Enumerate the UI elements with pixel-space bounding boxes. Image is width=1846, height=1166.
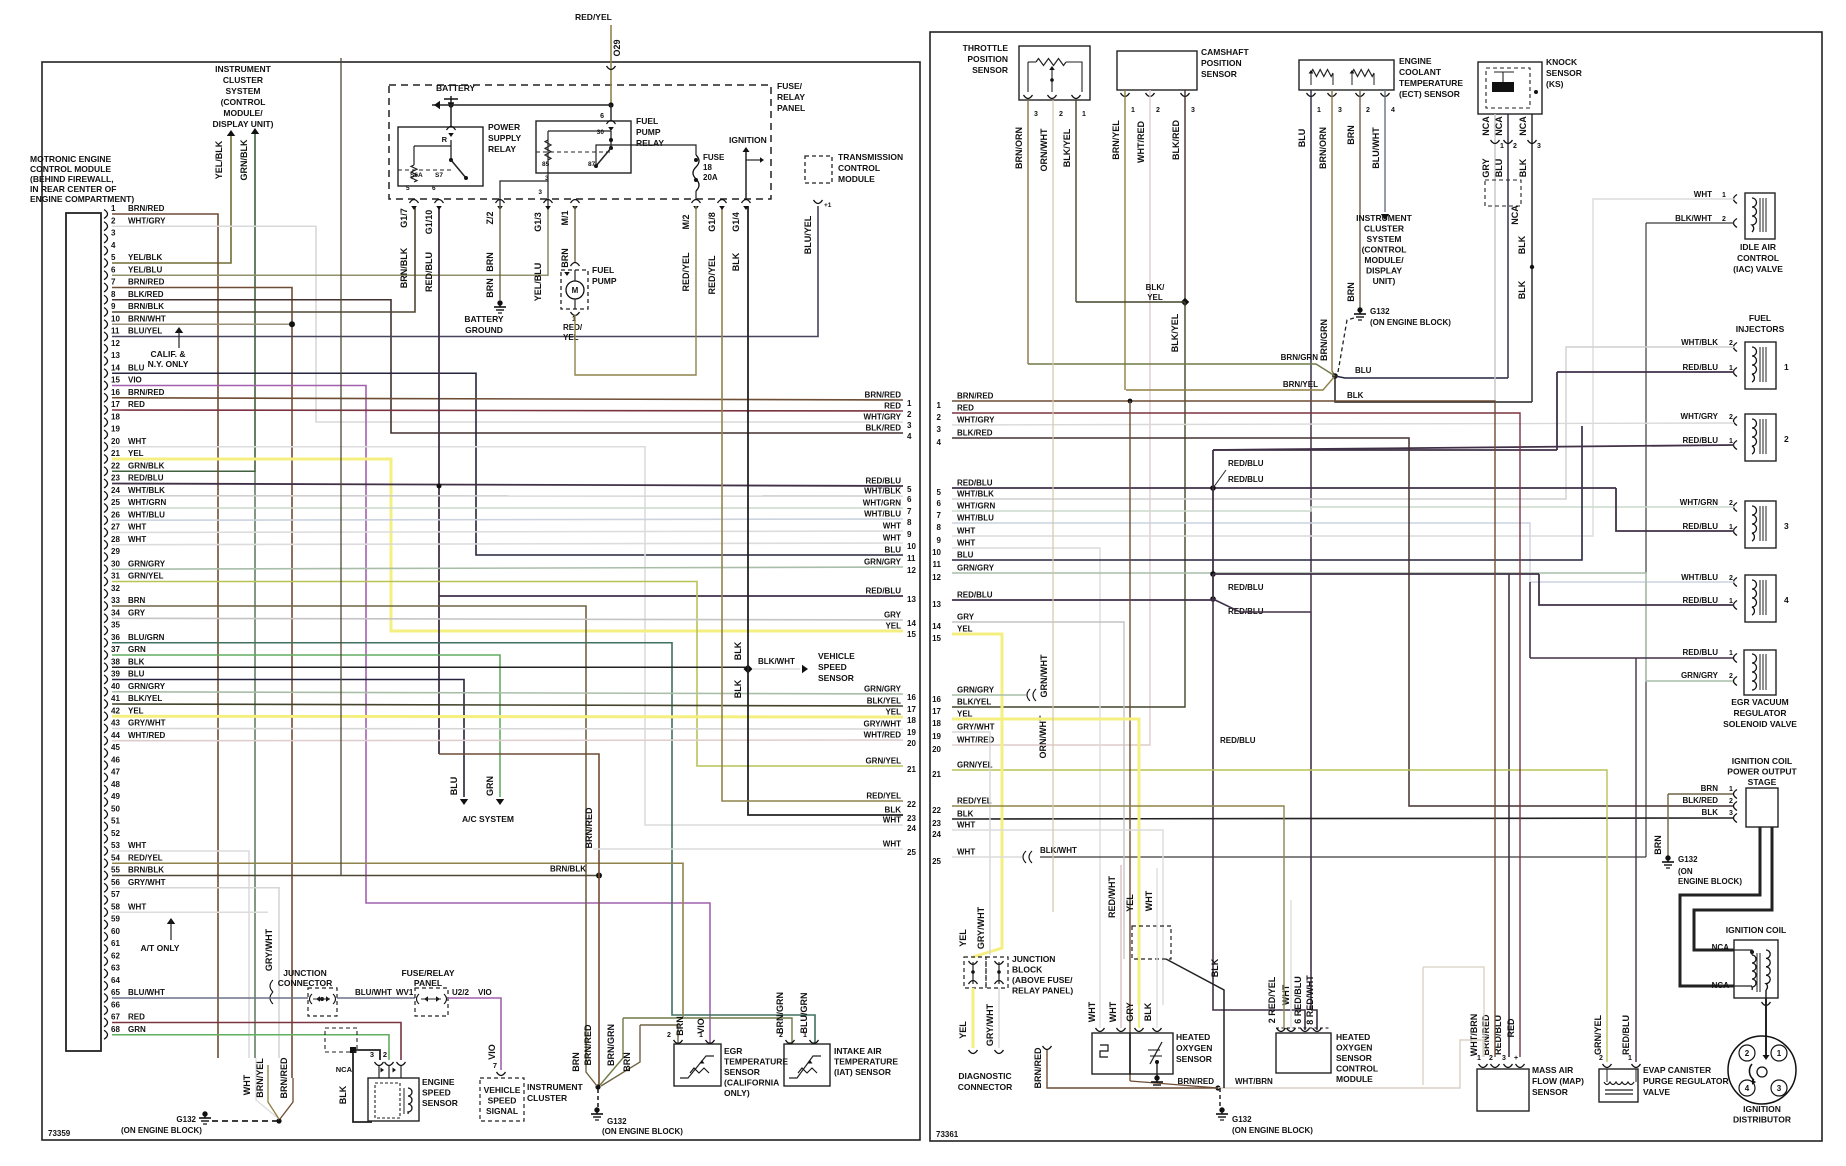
svg-text:WHT/GRY: WHT/GRY [864,413,902,422]
wire BRN to power stage and G132 [1668,793,1734,795]
svg-text:TEMPERATURE: TEMPERATURE [1399,78,1463,88]
ECM pin 54 [104,859,108,868]
svg-text:13: 13 [111,351,120,360]
svg-text:WHT: WHT [128,841,146,850]
svg-text:8: 8 [111,290,116,299]
svg-text:6: 6 [907,495,912,504]
svg-text:VIO: VIO [128,376,142,385]
svg-text:7: 7 [111,278,116,287]
svg-text:BLK/RED: BLK/RED [865,424,901,433]
svg-text:RED/BLU: RED/BLU [424,252,434,292]
wire pin40 GRN/GRY to edge 16 [112,692,903,694]
wire GRN/YEL to EVAP valve [952,770,1607,1062]
ECM pin 31 [104,577,108,586]
svg-text:66: 66 [111,1000,120,1009]
ECM pin 18 [104,418,108,427]
svg-text:RED/WHT: RED/WHT [1107,876,1117,918]
svg-text:BLK: BLK [1517,235,1527,254]
svg-text:RED: RED [128,1013,145,1022]
svg-text:WHT: WHT [883,534,901,543]
svg-text:15: 15 [907,630,916,639]
ECM pin 57 [104,896,108,905]
wire trunk olive x343 [340,58,342,876]
svg-text:JUNCTION: JUNCTION [1012,954,1055,964]
vehicle speed sensor node [743,664,752,673]
wire pin54 RED/YEL [112,863,683,1017]
svg-text:(ON ENGINE BLOCK): (ON ENGINE BLOCK) [1370,318,1451,327]
svg-text:18: 18 [111,412,120,421]
svg-text:BLK: BLK [1518,158,1528,177]
wire YEL edge 18 to HO2S [952,719,1139,1005]
svg-text:3: 3 [370,1050,374,1059]
ECM pin 2 [104,222,108,231]
svg-text:1: 1 [1784,362,1789,372]
svg-text:PANEL: PANEL [777,103,805,113]
svg-text:3: 3 [937,425,942,434]
svg-text:7: 7 [493,1061,497,1070]
svg-text:2: 2 [937,413,942,422]
svg-text:WHT: WHT [883,522,901,531]
svg-text:4: 4 [111,241,116,250]
svg-text:65: 65 [111,988,120,997]
ECM pin 60 [104,932,108,941]
wire pin34 GRY to edge 14 [112,618,903,620]
knock sensor dashed connector [1485,180,1521,206]
wire WHT edge 10 to heated oxygen sensor [952,548,1100,1028]
svg-text:3: 3 [1777,1084,1782,1093]
svg-text:WHT/GRY: WHT/GRY [957,416,995,425]
svg-text:IGNITION COIL: IGNITION COIL [1732,756,1792,766]
ECM pin 64 [104,981,108,990]
svg-text:(ON ENGINE BLOCK): (ON ENGINE BLOCK) [1232,1126,1313,1135]
svg-text:BRN: BRN [1346,125,1356,145]
ECM pin 24 [104,491,108,500]
svg-text:8 RED/WHT: 8 RED/WHT [1305,975,1315,1025]
svg-text:BLK: BLK [128,657,145,666]
svg-text:MODULE/: MODULE/ [223,108,263,118]
svg-text:RED/BLU: RED/BLU [1682,363,1718,372]
wire CMP BRN/YEL [1124,90,1126,390]
wire RED to MAF [952,413,1520,1057]
svg-text:52: 52 [111,829,120,838]
ECM pin 65 [104,994,108,1003]
svg-text:BATTERY: BATTERY [464,314,504,324]
heated oxygen sensor [1092,1033,1130,1074]
svg-text:SUPPLY: SUPPLY [488,133,522,143]
svg-text:23: 23 [111,474,120,483]
ECM pin 30 [104,565,108,574]
svg-text:CLUSTER: CLUSTER [1364,224,1404,234]
svg-text:SPEED: SPEED [818,662,847,672]
svg-text:YEL: YEL [563,333,579,342]
svg-text:GRN/YEL: GRN/YEL [1593,1015,1603,1056]
svg-text:55: 55 [111,866,120,875]
svg-text:YEL: YEL [128,449,144,458]
svg-text:GRN/BLK: GRN/BLK [128,461,165,470]
svg-text:G132: G132 [1678,855,1698,864]
svg-text:37: 37 [111,645,120,654]
svg-text:22: 22 [932,806,941,815]
svg-text:2: 2 [1729,575,1733,582]
svg-text:7: 7 [937,511,942,520]
svg-text:16: 16 [932,695,941,704]
heated oxygen sensor control module [1276,1033,1331,1073]
svg-text:SYSTEM: SYSTEM [226,86,261,96]
svg-text:BRN/BLK: BRN/BLK [550,865,586,874]
relay output to battery ground wire BRN Z/2 [500,160,548,206]
svg-text:GROUND: GROUND [465,325,503,335]
ECM pin 20 [104,442,108,451]
svg-text:RED/BLU: RED/BLU [957,479,993,488]
svg-text:18: 18 [907,716,916,725]
svg-text:M/1: M/1 [560,210,570,225]
ECM pin 16 [104,393,108,402]
svg-text:RED/YEL: RED/YEL [866,792,901,801]
svg-text:YEL/BLK: YEL/BLK [128,253,162,262]
ECM pin 1 [104,210,108,219]
svg-text:R: R [442,135,448,144]
wire ORN/WHT end [1052,100,1054,912]
svg-text:(CONTROL: (CONTROL [1362,245,1407,255]
svg-text:22: 22 [907,800,916,809]
svg-text:1: 1 [1729,365,1733,372]
svg-text:SENSOR: SENSOR [1176,1054,1212,1064]
svg-text:YEL/BLK: YEL/BLK [214,140,224,179]
svg-text:VEHICLE: VEHICLE [484,1085,521,1095]
svg-text:G132: G132 [607,1117,627,1126]
wire BRN from EGR pin 2 [640,1025,678,1044]
svg-text:2: 2 [383,1050,387,1059]
svg-text:3: 3 [1784,521,1789,531]
G132 right page bottom [1219,1088,1221,1108]
svg-text:24: 24 [932,830,941,839]
svg-text:YEL/BLU: YEL/BLU [128,265,162,274]
svg-text:25: 25 [111,498,120,507]
junction pin10 BRN/WHT [112,323,292,325]
svg-text:30: 30 [597,129,605,136]
mass air flow sensor [1477,1069,1529,1111]
svg-text:44: 44 [111,731,120,740]
wire pin5 YEL/BLK to instrument cluster [112,133,231,263]
wire pin25 WHT/GRN to edge 7 [112,507,903,509]
svg-text:STAGE: STAGE [1748,777,1777,787]
svg-text:IGNITION: IGNITION [1743,1104,1781,1114]
svg-text:56: 56 [111,878,120,887]
svg-text:11: 11 [933,560,942,569]
svg-text:POSITION: POSITION [1201,58,1242,68]
svg-text:OXYGEN: OXYGEN [1176,1043,1212,1053]
svg-text:CONTROL: CONTROL [1336,1064,1378,1074]
svg-text:+1: +1 [824,202,832,209]
svg-text:9: 9 [111,302,116,311]
svg-text:10: 10 [111,314,120,323]
wire WHT/BRN from G132 junction to MAF [1130,1081,1218,1088]
wire BLK/RED to ignition power stage [952,438,1734,806]
svg-text:WV1: WV1 [396,988,414,997]
svg-text:GRN/GRY: GRN/GRY [957,686,995,695]
svg-text:BLK: BLK [338,1085,348,1104]
svg-text:23: 23 [932,819,941,828]
svg-text:27: 27 [111,523,120,532]
svg-text:BLK: BLK [1143,1002,1153,1021]
wire WHT/BLU to injector 4 [952,523,1734,582]
wire ECT BRN to G132 [1359,90,1361,308]
ECM pin 36 [104,638,108,647]
svg-text:24: 24 [111,486,120,495]
wire GRN/GRY to EGR solenoid [952,573,1734,681]
wire pin27 WHT to edge 9 [112,531,903,533]
ECM pin 21 [104,455,108,464]
svg-text:GRY/WHT: GRY/WHT [128,878,166,887]
ECM pin 59 [104,920,108,929]
svg-text:WHT: WHT [957,527,975,536]
svg-text:G1/7: G1/7 [399,208,409,228]
svg-text:35: 35 [111,621,120,630]
svg-text:DISPLAY: DISPLAY [1366,266,1402,276]
wire BLK/WHT edge 25 to IAC valve [1040,856,1646,858]
svg-text:BLK: BLK [1210,958,1220,977]
svg-text:YEL: YEL [885,622,901,631]
svg-text:EVAP CANISTER: EVAP CANISTER [1643,1065,1711,1075]
ECM pin 19 [104,430,108,439]
svg-text:2: 2 [1722,216,1726,223]
svg-text:BLK/WHT: BLK/WHT [1675,214,1712,223]
svg-text:CALIF. &: CALIF. & [151,349,186,359]
svg-text:RED/YEL: RED/YEL [707,255,717,295]
wire pin14 BLU [112,373,903,555]
svg-text:BLU/YEL: BLU/YEL [128,327,162,336]
svg-text:12: 12 [907,566,916,575]
svg-text:61: 61 [111,939,120,948]
svg-text:SENSOR: SENSOR [972,65,1008,75]
svg-text:BLK/RED: BLK/RED [128,290,164,299]
svg-text:SENSOR: SENSOR [1336,1053,1372,1063]
ECM pin 42 [104,712,108,721]
svg-text:WHT/BLU: WHT/BLU [864,510,901,519]
svg-text:RED: RED [128,400,145,409]
svg-text:IDLE AIR: IDLE AIR [1740,242,1776,252]
RED/WHT dashed connector [1132,926,1171,959]
svg-text:YEL: YEL [958,929,968,947]
svg-text:8: 8 [907,518,912,527]
wire GRY edge 14 [952,622,1124,926]
svg-text:5: 5 [406,185,410,192]
calif ny only note [175,327,183,333]
svg-text:ENGINE BLOCK): ENGINE BLOCK) [1678,877,1742,886]
svg-text:RELAY: RELAY [777,92,805,102]
ECM pin 3 [104,234,108,243]
ECM pin 49 [104,798,108,807]
svg-text:GRN/GRY: GRN/GRY [128,682,166,691]
svg-text:WHT: WHT [128,902,146,911]
svg-text:S7: S7 [435,172,443,179]
svg-text:4: 4 [1391,107,1395,114]
svg-text:21: 21 [111,449,120,458]
ignition distributor [1728,1036,1796,1104]
splice BRN/GRN BRN/YEL BLU BLK [1332,373,1338,379]
svg-text:17: 17 [932,707,941,716]
svg-text:1: 1 [1317,107,1321,114]
ECM pin 17 [104,406,108,415]
vehicle speed signal box [480,1078,524,1121]
svg-text:2: 2 [1729,798,1733,805]
svg-text:VEHICLE: VEHICLE [818,651,855,661]
svg-text:47: 47 [111,768,120,777]
svg-text:TRANSMISSION: TRANSMISSION [838,152,903,162]
svg-text:13: 13 [932,600,941,609]
svg-text:BRN/RED: BRN/RED [865,391,902,400]
wire CMP WHT/RED to edge 20 [957,90,1150,745]
svg-text:YEL: YEL [1147,293,1163,302]
wire pin58 WHT [112,911,268,913]
svg-text:YEL: YEL [957,625,973,634]
wire WHT to IAC [952,199,1734,536]
svg-text:1: 1 [1729,650,1733,657]
svg-text:BRN: BRN [128,596,146,605]
svg-text:68: 68 [111,1025,120,1034]
svg-text:FUSE: FUSE [703,153,725,162]
ECM pin 40 [104,687,108,696]
svg-text:10: 10 [907,542,916,551]
svg-text:FUSE/RELAY: FUSE/RELAY [401,968,454,978]
engine speed sensor [368,1078,419,1121]
ECM pin 29 [104,553,108,562]
svg-text:1: 1 [1729,524,1733,531]
svg-text:25: 25 [932,857,941,866]
BLK/YEL splice [1181,298,1189,306]
svg-text:BLU: BLU [1297,129,1307,148]
svg-text:BRN: BRN [1653,835,1663,855]
svg-text:BRN: BRN [485,278,495,298]
svg-text:BLK: BLK [1517,280,1527,299]
svg-text:BRN/RED: BRN/RED [128,388,165,397]
svg-text:SENSOR: SENSOR [1546,68,1582,78]
ECM pin 56 [104,883,108,892]
svg-text:2: 2 [111,216,116,225]
RED/YEL trunk G1/8 [722,206,903,801]
svg-text:M/2: M/2 [681,214,691,229]
ECM pin 5 [104,259,108,268]
svg-text:BRN/YEL: BRN/YEL [1283,380,1318,389]
svg-text:WHT: WHT [883,840,901,849]
svg-text:WHT: WHT [957,539,975,548]
ECM pin 28 [104,540,108,549]
power supply relay [398,127,483,186]
svg-text:COOLANT: COOLANT [1399,67,1442,77]
svg-text:BRN/ORN: BRN/ORN [1318,127,1328,169]
svg-text:N.Y. ONLY: N.Y. ONLY [148,359,189,369]
svg-text:2: 2 [1784,434,1789,444]
svg-text:(KS): (KS) [1546,79,1564,89]
ECM pin 4 [104,246,108,255]
ECM pin 58 [104,908,108,917]
svg-text:15: 15 [932,634,941,643]
junction block [964,957,986,988]
svg-text:NCA: NCA [1712,981,1730,990]
svg-text:BRN: BRN [560,248,570,268]
ECM pin 41 [104,700,108,709]
svg-text:BLK/YEL: BLK/YEL [128,694,162,703]
svg-text:5: 5 [907,485,912,494]
wire pin30 GRN/GRY to edge 12 [112,567,903,569]
svg-text:WHT/BLU: WHT/BLU [128,510,165,519]
right page border [930,32,1822,1141]
svg-text:GRN/GRY: GRN/GRY [1681,671,1719,680]
svg-text:RED/BLU: RED/BLU [1682,522,1718,531]
ECM pin 43 [104,724,108,733]
svg-text:PURGE REGULATOR: PURGE REGULATOR [1643,1076,1729,1086]
svg-text:YEL: YEL [957,710,973,719]
svg-text:BLU: BLU [1355,366,1372,375]
svg-text:BRN/RED: BRN/RED [128,278,165,287]
svg-text:BLK/: BLK/ [1146,283,1165,292]
wire pin7 BRN/RED trunk x293 [112,288,292,1079]
svg-text:BRN: BRN [675,1016,685,1036]
svg-text:INTAKE AIR: INTAKE AIR [834,1046,882,1056]
wire pin17 RED to edge 2 [112,410,903,411]
wire pin38 BLK to vehicle speed sensor [112,666,748,668]
wire BRN/GRN to IAT sensor pin 2 [623,1018,792,1044]
BLK wire from connector to G132 junction [1166,959,1224,1088]
svg-text:12: 12 [111,339,120,348]
svg-text:BRN/RED: BRN/RED [1178,1077,1215,1086]
trunk below to module pin 6 [1213,599,1305,1030]
svg-text:GRN/GRY: GRN/GRY [864,685,902,694]
fuse relay panel inline [415,988,448,1016]
svg-text:6: 6 [937,499,942,508]
svg-text:RED/YEL: RED/YEL [128,853,163,862]
svg-text:SENSOR: SENSOR [1532,1087,1568,1097]
svg-text:WHT: WHT [1694,190,1712,199]
svg-text:ORN/WHT: ORN/WHT [1039,128,1049,171]
ECM pin 66 [104,1006,108,1015]
svg-text:RED: RED [957,404,974,413]
dashed connector above engine speed sensor [325,1028,357,1052]
svg-text:BLU/WHT: BLU/WHT [1371,127,1381,169]
svg-text:SPEED: SPEED [422,1088,451,1098]
svg-text:20: 20 [111,437,120,446]
svg-text:BLU/GRN: BLU/GRN [799,993,809,1034]
svg-text:2: 2 [1513,143,1517,150]
svg-text:BLU/YEL: BLU/YEL [803,215,813,254]
svg-text:GRN/GRY: GRN/GRY [957,564,995,573]
wire YEL to junction block [952,634,1002,957]
svg-text:GRN: GRN [128,645,146,654]
svg-text:CONTROL: CONTROL [1737,253,1779,263]
svg-text:BRN: BRN [1701,784,1719,793]
svg-text:RELAY: RELAY [488,144,516,154]
svg-text:GRY: GRY [957,613,975,622]
svg-text:RED/BLU: RED/BLU [1621,1015,1631,1055]
svg-text:17: 17 [907,705,916,714]
svg-text:U2/2: U2/2 [452,988,469,997]
ECM pin 14 [104,369,108,378]
svg-text:60: 60 [111,927,120,936]
svg-text:RED/BLU: RED/BLU [1228,475,1264,484]
svg-text:WHT/GRN: WHT/GRN [128,498,166,507]
trunk down to second splice [1212,488,1214,574]
wire pin9 BRN/BLK to relay G1/7 [112,206,415,312]
ECM pin 26 [104,516,108,525]
ECM pin 61 [104,945,108,954]
svg-text:43: 43 [111,719,120,728]
svg-text:UNIT): UNIT) [1373,276,1396,286]
svg-text:2: 2 [1729,500,1733,507]
svg-text:3: 3 [1537,143,1541,150]
svg-text:SOLENOID VALVE: SOLENOID VALVE [1723,719,1797,729]
svg-text:49: 49 [111,792,120,801]
svg-text:BRN/YEL: BRN/YEL [1111,120,1121,160]
